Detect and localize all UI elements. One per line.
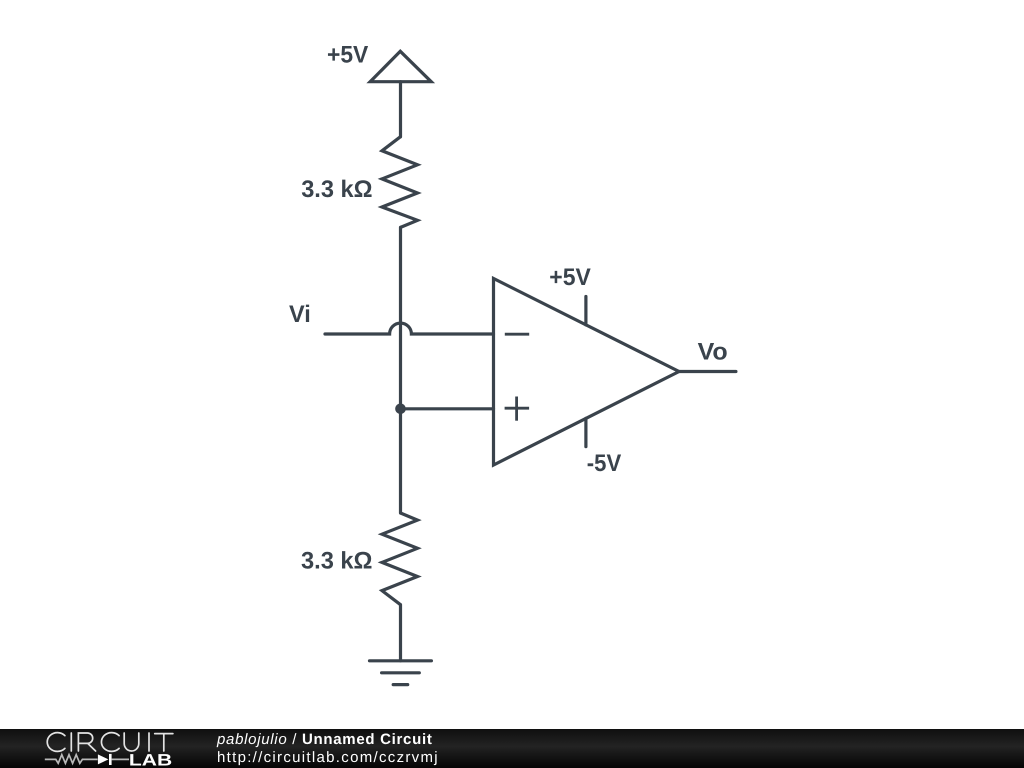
wire: R1 to junction node [399, 227, 402, 408]
wire: op-amp output to Vo [679, 370, 736, 373]
resistor R2 3.3k zigzag [382, 513, 418, 605]
svg-text:+5V: +5V [549, 264, 591, 291]
wire: Vi input with hop over vertical wire [325, 323, 494, 334]
logo word CIRCUIT (drawn strokes), bar-local coords: y = page y - 729 [47, 733, 173, 752]
op-amp non-inverting input marker (plus) [505, 397, 529, 421]
power supply +5V triangle symbol [370, 51, 431, 81]
svg-text:3.3 kΩ: 3.3 kΩ [301, 176, 372, 203]
op-amp V- pin stub [584, 418, 587, 446]
letter T [155, 734, 173, 751]
letter U [124, 733, 139, 751]
op-amp inverting input marker (minus) [505, 333, 529, 336]
CircuitLab footer bar [0, 729, 1024, 768]
footer title text [217, 731, 439, 768]
svg-text:3.3 kΩ: 3.3 kΩ [301, 548, 373, 575]
junction node dot [395, 404, 406, 415]
wire: supply to R1 [399, 82, 402, 137]
logo wire diode to LAB [112, 758, 129, 760]
logo diode symbol [98, 754, 109, 764]
svg-text:+5V: +5V [327, 41, 368, 68]
logo resistor glyph [45, 755, 98, 764]
resistor R1 3.3k zigzag [382, 137, 418, 228]
svg-text:Vi: Vi [289, 301, 311, 328]
ground symbol [370, 661, 432, 685]
letter I [70, 733, 72, 751]
svg-text:-5V: -5V [587, 450, 621, 477]
letter I [148, 733, 150, 751]
letter C [47, 733, 65, 752]
svg-text:Vo: Vo [698, 339, 728, 366]
wire: junction node to op-amp non-inverting input [401, 407, 494, 410]
op-amp V+ pin stub [584, 297, 587, 325]
wire: R2 to ground [399, 605, 402, 661]
CircuitLab logo [0, 729, 190, 768]
op-amp U1 triangle body [494, 279, 680, 466]
wire: junction node down to R2 [399, 409, 402, 513]
svg-text:LAB: LAB [129, 751, 172, 768]
letter C [101, 733, 119, 752]
letter R [78, 733, 95, 751]
